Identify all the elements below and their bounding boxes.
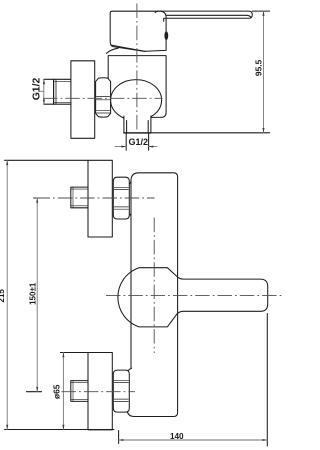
- svg-text:215: 215: [0, 289, 6, 303]
- svg-text:ø65: ø65: [52, 384, 62, 399]
- svg-text:140: 140: [170, 432, 184, 441]
- svg-text:G1/2: G1/2: [31, 78, 42, 101]
- svg-text:95.5: 95.5: [254, 59, 264, 76]
- svg-text:G1/2: G1/2: [128, 137, 148, 147]
- svg-text:150±1: 150±1: [29, 282, 38, 305]
